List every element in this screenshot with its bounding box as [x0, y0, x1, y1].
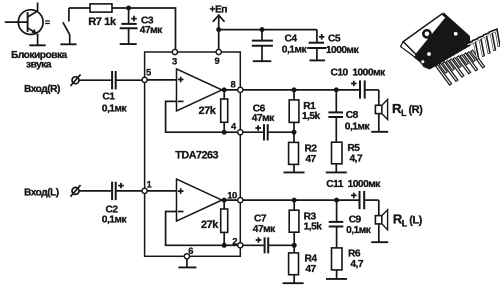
ground R2	[284, 171, 305, 173]
op-amp U1.1	[177, 69, 222, 111]
svg-text:TDA7263: TDA7263	[175, 150, 218, 162]
IC package front pins	[436, 50, 484, 85]
svg-text:2: 2	[232, 235, 237, 246]
node R3 top	[292, 198, 297, 203]
pin 5	[142, 66, 151, 82]
resistor R7	[90, 4, 129, 12]
capacitor C9	[329, 200, 344, 248]
wire output pin 8	[220, 89, 238, 91]
capacitor C3	[120, 8, 138, 44]
pin 3	[172, 49, 177, 66]
wire feedback top amp	[166, 101, 222, 132]
capacitor C2	[112, 182, 142, 200]
svg-text:6: 6	[188, 245, 193, 256]
wire terminal L to C2	[79, 190, 111, 192]
input terminal R	[70, 74, 80, 86]
svg-text:4,7: 4,7	[350, 259, 363, 270]
label RL (R)	[392, 101, 423, 118]
svg-text:27k: 27k	[201, 219, 219, 231]
power +Еп	[210, 4, 228, 29]
ground R4	[283, 282, 304, 284]
node R7/C3 junction	[126, 6, 131, 11]
capacitor C5	[307, 30, 326, 61]
wire terminal R to C1	[79, 79, 111, 81]
svg-text:C1: C1	[102, 91, 115, 102]
wire supply rail	[219, 29, 317, 31]
svg-text:R4: R4	[305, 253, 318, 264]
svg-text:C10 1000мк: C10 1000мк	[331, 68, 387, 79]
IC package tab side strip	[401, 42, 417, 58]
svg-text:0,1мк: 0,1мк	[345, 122, 371, 133]
svg-text:R7 1k: R7 1k	[88, 16, 117, 28]
ground R6	[326, 278, 347, 280]
wire pin 10 output row	[243, 199, 359, 201]
svg-text:Вход(R): Вход(R)	[24, 84, 60, 95]
switch SA1	[60, 8, 76, 44]
IC package back pin hooks	[467, 30, 500, 59]
svg-text:47: 47	[305, 264, 316, 275]
label RL (L)	[393, 212, 423, 229]
pin 2	[232, 235, 243, 248]
IC U1 TDA7263 box	[145, 52, 241, 256]
transistor VT1 (mute)	[5, 3, 46, 46]
svg-text:C4: C4	[285, 33, 298, 44]
svg-text:C5: C5	[328, 34, 341, 45]
svg-text:1000мк: 1000мк	[326, 45, 360, 56]
svg-text:10: 10	[227, 189, 237, 200]
node feedback top	[222, 130, 227, 135]
resistor 27k (top)	[221, 90, 228, 132]
pin 8	[231, 78, 243, 92]
node R1/R2/C6	[292, 130, 297, 135]
svg-text:47мк: 47мк	[253, 224, 276, 235]
wire feedback to pin4	[224, 131, 238, 133]
svg-text:+Еп: +Еп	[210, 4, 228, 15]
pin 6	[184, 245, 193, 259]
capacitor C8	[328, 90, 343, 142]
capacitor C1	[112, 71, 142, 89]
node C4 tap	[260, 27, 265, 32]
IC package dimples	[421, 32, 457, 63]
svg-text:0,1мк: 0,1мк	[102, 215, 128, 226]
ground R5	[326, 171, 347, 173]
svg-text:R5: R5	[347, 143, 360, 154]
svg-text:R2: R2	[305, 143, 318, 154]
svg-text:(L): (L)	[409, 215, 422, 227]
svg-text:1: 1	[147, 179, 152, 190]
wire feedback to pin2	[224, 244, 238, 246]
node R3/R4/C7	[292, 243, 297, 248]
IC package pin nub ticks	[438, 48, 468, 68]
svg-text:4,7: 4,7	[350, 153, 363, 164]
wire pin5 to +in	[147, 79, 176, 81]
svg-text:47мк: 47мк	[140, 25, 163, 36]
svg-text:R3: R3	[304, 211, 317, 222]
svg-text:9: 9	[215, 55, 220, 66]
capacitor C10	[351, 80, 379, 98]
resistor R2	[289, 132, 299, 172]
IC package back pin stubs	[440, 52, 475, 73]
svg-text:3: 3	[172, 56, 177, 67]
ground pin 6	[178, 259, 196, 268]
capacitor C6	[243, 124, 294, 140]
capacitor C11	[351, 191, 379, 209]
ground speaker L	[371, 241, 388, 243]
node output top	[222, 87, 227, 92]
wire junction to pin 3	[129, 8, 176, 50]
input terminal L	[70, 185, 80, 197]
IC package drawing (Multiwatt body)	[415, 13, 471, 69]
resistor R5	[332, 142, 343, 172]
svg-text:звука: звука	[26, 60, 52, 71]
resistor R3	[289, 200, 299, 245]
svg-text:Вход(L): Вход(L)	[24, 187, 59, 198]
svg-text:5: 5	[146, 66, 151, 77]
wire feedback bottom amp	[166, 212, 222, 246]
svg-text:47мк: 47мк	[252, 113, 275, 124]
pin 1	[142, 179, 152, 194]
resistor R6	[332, 248, 343, 278]
svg-text:C9: C9	[349, 214, 362, 225]
resistor R4	[289, 245, 299, 282]
pin 4	[231, 120, 243, 134]
svg-text:C7: C7	[254, 213, 267, 224]
node R1 top	[292, 87, 297, 92]
wire pin 8 output row	[243, 89, 359, 91]
wire output pin 10	[220, 199, 238, 201]
wire pin1 to +in	[147, 190, 176, 192]
svg-text:(R): (R)	[409, 104, 424, 116]
IC package tab face	[403, 14, 446, 55]
capacitor C4	[252, 30, 273, 62]
op-amp U1.2	[177, 179, 222, 221]
node output bottom	[222, 198, 227, 203]
node C9/C11	[334, 198, 339, 203]
speaker RL(L)	[375, 200, 387, 242]
svg-text:1,5k: 1,5k	[302, 111, 321, 122]
svg-text:0,1мк: 0,1мк	[346, 225, 372, 236]
pin 10	[227, 189, 243, 202]
speaker RL(R)	[375, 90, 387, 131]
wire switch to R7	[69, 7, 90, 9]
pin 9	[215, 49, 222, 66]
svg-text:8: 8	[231, 78, 236, 89]
svg-text:1,5k: 1,5k	[304, 222, 323, 233]
svg-text:47: 47	[305, 154, 316, 165]
capacitor C7	[243, 237, 294, 253]
node supply rail	[216, 27, 221, 32]
node feedback bottom	[222, 243, 227, 248]
ground speaker R	[371, 131, 388, 133]
svg-text:C8: C8	[346, 110, 359, 121]
IC package tab hole	[423, 30, 430, 37]
resistor 27k (bottom)	[221, 200, 228, 245]
svg-text:C11 1000мк: C11 1000мк	[326, 179, 381, 190]
wire rail to pin 9	[218, 30, 220, 50]
node C8/C10	[334, 87, 339, 92]
svg-text:0,1мк: 0,1мк	[102, 103, 128, 114]
svg-text:27k: 27k	[199, 105, 217, 117]
svg-text:=: =	[45, 17, 50, 27]
svg-text:0,1мк: 0,1мк	[282, 45, 308, 56]
resistor R1	[289, 90, 299, 132]
